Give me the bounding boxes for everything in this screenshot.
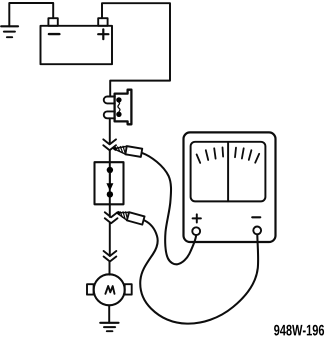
wire from ground G1 to battery negative terminal bbox=[9, 3, 53, 26]
wire from battery positive terminal to connector bbox=[102, 3, 170, 96]
voltmeter scale ticks bbox=[197, 147, 260, 163]
voltmeter dial face bbox=[191, 142, 266, 202]
battery minus label bbox=[49, 33, 60, 35]
voltmeter U1 case bbox=[184, 132, 276, 242]
fusible element squiggle bbox=[118, 102, 120, 112]
connector lower pin bbox=[104, 111, 115, 118]
figure number label 948W-196 bbox=[274, 325, 324, 336]
test box lower dot bbox=[107, 191, 113, 197]
motor left brush terminal bbox=[87, 284, 94, 294]
motor right brush terminal bbox=[125, 284, 132, 294]
voltmeter minus label bbox=[252, 216, 260, 218]
test box upper dot bbox=[107, 167, 113, 173]
motor label M bbox=[105, 286, 114, 294]
wire from middle break to lower break bbox=[109, 223, 111, 256]
test box flow arrow bbox=[106, 173, 113, 191]
battery negative post bbox=[48, 18, 57, 26]
alligator clip P2 (lower) bbox=[116, 211, 144, 225]
connector / fusible link holder body bbox=[115, 90, 132, 125]
wire through test box bbox=[109, 150, 111, 217]
ground G2 (below motor) bbox=[100, 323, 118, 331]
voltmeter minus terminal bbox=[253, 227, 261, 235]
voltmeter plus terminal bbox=[192, 227, 200, 235]
battery positive post bbox=[98, 18, 107, 26]
wire from connector to upper break bbox=[109, 118, 111, 144]
connector lower contact dot bbox=[116, 112, 121, 117]
connector upper contact dot bbox=[116, 97, 121, 102]
alligator clip P1 (upper) bbox=[113, 146, 142, 157]
wire break chevrons (upper pair) bbox=[103, 139, 116, 150]
test lead from clip P1 to plus terminal bbox=[142, 153, 196, 264]
wire from motor to ground G2 bbox=[108, 305, 110, 322]
battery plus label bbox=[98, 29, 108, 39]
test lead from clip P2 to minus terminal bbox=[140, 221, 258, 324]
wire break chevrons (lower pair) bbox=[104, 251, 117, 262]
voltmeter plus label bbox=[193, 214, 201, 222]
battery B1 body bbox=[41, 26, 113, 64]
wire break chevrons (middle pair) bbox=[105, 212, 118, 223]
ground G1 (battery negative ground, top left) bbox=[1, 26, 18, 37]
voltmeter needle bbox=[227, 143, 229, 202]
test box bbox=[95, 162, 124, 204]
wire from lower break to motor bbox=[109, 262, 111, 275]
connector upper pin bbox=[104, 97, 115, 104]
motor M1 body bbox=[94, 274, 125, 305]
